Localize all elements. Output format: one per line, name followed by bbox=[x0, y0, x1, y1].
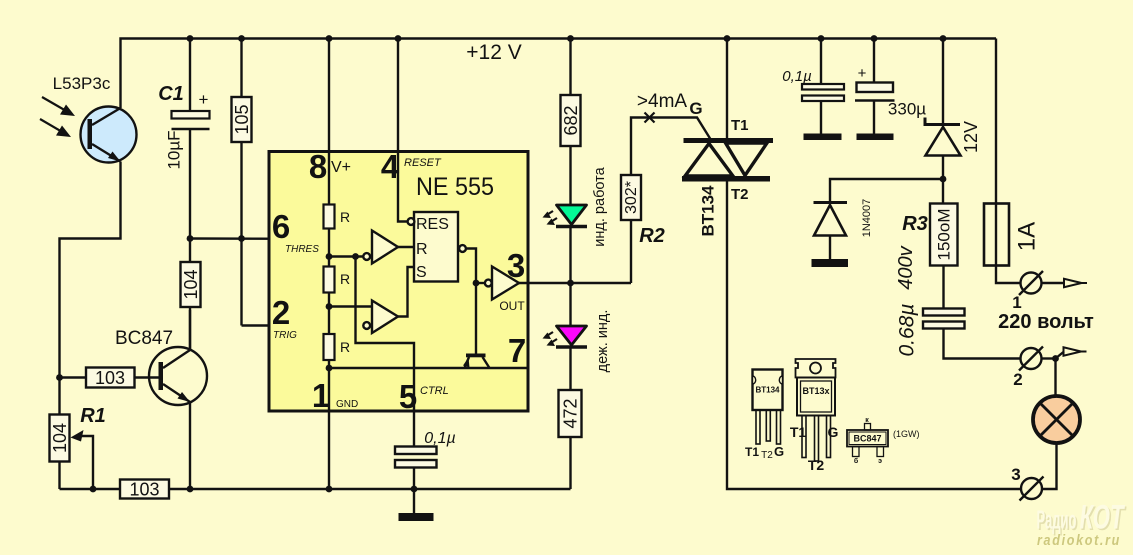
svg-text:+12 V: +12 V bbox=[466, 41, 521, 64]
ground (main) bbox=[399, 489, 434, 521]
wire cap to terminal 2 bbox=[944, 329, 1021, 359]
package BT134 bbox=[745, 370, 784, 462]
svg-text:OUT: OUT bbox=[499, 299, 525, 313]
wire divider seg1 bbox=[329, 229, 363, 267]
svg-text:472: 472 bbox=[561, 398, 581, 428]
wire comparator top out bbox=[396, 246, 414, 248]
svg-text:э: э bbox=[878, 458, 882, 465]
svg-text:T1: T1 bbox=[790, 424, 807, 440]
svg-text:radiokot.ru: radiokot.ru bbox=[1037, 532, 1121, 549]
svg-text:G: G bbox=[774, 444, 784, 459]
resistor R3 150oM bbox=[902, 204, 957, 266]
svg-text:0,1µ: 0,1µ bbox=[782, 68, 812, 85]
op-amp output buffer bbox=[485, 267, 519, 300]
wire TRIG (pin 2) bbox=[242, 324, 365, 326]
fuse 1A bbox=[984, 204, 1041, 266]
transistor discharge Q bbox=[463, 354, 490, 369]
pin 6 THRES bbox=[272, 208, 319, 255]
lamp bbox=[1033, 396, 1080, 443]
wire pin4 column to RES bubble bbox=[398, 39, 408, 222]
wire emitter of phototransistor to left rail bbox=[60, 162, 121, 490]
svg-text:T2: T2 bbox=[731, 186, 749, 203]
diode 1N4007 bbox=[814, 199, 874, 238]
svg-text:2: 2 bbox=[272, 294, 290, 331]
capacitor 0,1u filter bbox=[782, 68, 844, 101]
RS flip-flop U1 bbox=[408, 212, 466, 282]
resistor 103 (base) bbox=[86, 368, 135, 389]
svg-text:GND: GND bbox=[336, 399, 358, 410]
svg-text:682: 682 bbox=[561, 105, 581, 135]
svg-text:6: 6 bbox=[272, 208, 290, 245]
wire RS out to buffer and discharge base bbox=[466, 249, 484, 354]
pin 2 TRIG bbox=[272, 294, 297, 341]
diode zener 12V bbox=[925, 118, 981, 156]
wire 1N4007 to ground bbox=[829, 236, 831, 260]
wire bottom ground rail bbox=[60, 488, 571, 490]
svg-text:R2: R2 bbox=[639, 225, 665, 247]
capacitor C1 bbox=[158, 83, 209, 170]
wire lamp to terminal3 bbox=[1042, 443, 1057, 489]
svg-text:G: G bbox=[828, 424, 839, 440]
wire comparator bottom out to S bbox=[396, 267, 414, 317]
wire 105 column and THRES-TRIG tie bbox=[240, 39, 242, 326]
svg-text:Радио: Радио bbox=[1037, 505, 1077, 535]
svg-text:CTRL: CTRL bbox=[420, 385, 449, 397]
wire CTRL link (pin5 column) bbox=[356, 257, 415, 447]
IC NE555 body bbox=[269, 152, 528, 412]
op-amp comparator bottom bbox=[363, 301, 398, 334]
svg-text:0.68µ: 0.68µ bbox=[896, 304, 919, 357]
svg-text:+: + bbox=[199, 90, 209, 109]
terminal 3 bbox=[1011, 465, 1043, 501]
svg-text:2: 2 bbox=[1013, 370, 1022, 389]
svg-text:BT134: BT134 bbox=[755, 386, 780, 395]
pin 7 bbox=[508, 332, 526, 369]
wire 682 column bbox=[569, 39, 571, 490]
svg-text:105: 105 bbox=[232, 104, 252, 134]
wire divider bottom / pin1 GND column bbox=[328, 360, 330, 489]
resistor 105 bbox=[232, 97, 252, 142]
svg-text:BC847: BC847 bbox=[853, 434, 881, 444]
svg-text:T2: T2 bbox=[761, 450, 773, 461]
wire +12V top rail bbox=[121, 39, 997, 109]
svg-text:T2: T2 bbox=[808, 457, 825, 473]
svg-text:>4mA: >4mA bbox=[637, 91, 687, 112]
svg-text:V+: V+ bbox=[331, 159, 351, 176]
svg-text:BT134: BT134 bbox=[699, 185, 718, 237]
wire pin8 column bbox=[328, 39, 330, 205]
svg-text:деж. инд.: деж. инд. bbox=[595, 310, 611, 373]
svg-text:TRIG: TRIG bbox=[273, 330, 297, 341]
transistor BC847 bbox=[115, 328, 207, 405]
svg-text:+: + bbox=[858, 65, 867, 82]
wire R1 wiper bbox=[71, 430, 94, 489]
resistor R (divider mid) bbox=[324, 267, 351, 293]
svg-text:104: 104 bbox=[181, 269, 201, 299]
svg-text:8: 8 bbox=[309, 148, 327, 185]
capacitor 0,1u (CTRL pin5) bbox=[395, 430, 456, 468]
resistor 682 bbox=[561, 95, 582, 146]
svg-text:G: G bbox=[689, 99, 702, 118]
ground (0,1u) bbox=[804, 134, 842, 141]
svg-text:(1GW): (1GW) bbox=[893, 429, 920, 439]
pin 1 GND bbox=[312, 377, 358, 414]
resistor R (divider bottom) bbox=[324, 334, 351, 360]
svg-text:1: 1 bbox=[312, 377, 330, 414]
wire zener column bbox=[942, 39, 944, 204]
node label >4mA bbox=[637, 91, 687, 112]
svg-text:1N4007: 1N4007 bbox=[861, 199, 873, 238]
svg-text:10µF: 10µF bbox=[165, 130, 184, 169]
svg-text:400v: 400v bbox=[895, 245, 917, 289]
svg-text:3: 3 bbox=[1011, 465, 1020, 484]
wire fuse column bbox=[996, 39, 1020, 284]
triac BT134 bbox=[682, 117, 773, 237]
capacitor 0.68u 400v bbox=[895, 245, 965, 356]
wire terminal2 to lamp bbox=[1054, 359, 1056, 397]
svg-text:R: R bbox=[340, 271, 350, 287]
wire BC847 collector up / emitter down bbox=[189, 310, 191, 489]
resistor 104 (C1 column) bbox=[181, 262, 201, 307]
wire discharge row pin7 bbox=[329, 367, 527, 369]
svg-text:R1: R1 bbox=[80, 405, 106, 427]
wire C1 / 104 / collector column bbox=[189, 39, 191, 350]
pin 4 RESET bbox=[381, 148, 442, 185]
svg-text:1A: 1A bbox=[1014, 222, 1041, 251]
pin 5 CTRL bbox=[399, 378, 449, 415]
pin 3 OUT bbox=[499, 247, 525, 313]
svg-text:104: 104 bbox=[50, 423, 70, 453]
wire divider seg2 bbox=[329, 293, 372, 335]
wire THRES (pin 6) bbox=[190, 237, 372, 240]
svg-text:RES: RES bbox=[416, 216, 449, 233]
svg-text:L53P3c: L53P3c bbox=[53, 74, 111, 93]
ground (330u) bbox=[857, 134, 894, 141]
svg-text:220 вольт: 220 вольт bbox=[998, 311, 1094, 333]
svg-text:T1: T1 bbox=[731, 117, 749, 134]
phototransistor L53P3c bbox=[40, 74, 137, 163]
svg-text:330µ: 330µ bbox=[888, 100, 926, 119]
node label G bbox=[689, 99, 702, 118]
svg-text:КОТ: КОТ bbox=[1080, 499, 1126, 537]
package BC847 bbox=[847, 417, 920, 465]
svg-text:12V: 12V bbox=[961, 121, 981, 153]
svg-text:1: 1 bbox=[1012, 293, 1021, 312]
svg-text:R3: R3 bbox=[902, 213, 928, 235]
wire 0,1u column bbox=[820, 39, 822, 134]
wire gate drive bbox=[631, 118, 711, 176]
pin 8 V+ bbox=[309, 148, 351, 185]
node x mark bbox=[645, 113, 655, 123]
terminal 2 bbox=[1013, 347, 1086, 390]
node label деж. инд. bbox=[595, 310, 611, 373]
package BT13x bbox=[790, 359, 839, 473]
svg-text:BT13x: BT13x bbox=[802, 386, 829, 396]
wire OUT (pin3) line bbox=[519, 282, 631, 284]
svg-text:RESET: RESET bbox=[404, 157, 442, 169]
wire triac column top bbox=[726, 39, 728, 139]
potentiometer R1 104 bbox=[50, 405, 106, 462]
wire R3 to cap bbox=[942, 266, 944, 309]
svg-text:150oM: 150oM bbox=[935, 209, 954, 261]
svg-text:б: б bbox=[854, 457, 859, 465]
svg-text:0,1µ: 0,1µ bbox=[424, 430, 455, 447]
svg-text:T1: T1 bbox=[745, 445, 759, 459]
svg-text:NE 555: NE 555 bbox=[416, 173, 494, 201]
wire 1N4007 link bbox=[830, 179, 943, 202]
resistor R2 302* bbox=[621, 175, 665, 247]
watermark radiokot bbox=[1037, 499, 1128, 550]
ground (1N4007) bbox=[812, 259, 849, 267]
svg-text:R: R bbox=[416, 241, 428, 258]
wire 330u column bbox=[873, 39, 875, 134]
op-amp comparator top bbox=[363, 231, 398, 264]
svg-text:R: R bbox=[340, 339, 350, 355]
svg-text:THRES: THRES bbox=[285, 244, 319, 255]
svg-text:7: 7 bbox=[508, 332, 526, 369]
wire base resistor leads bbox=[60, 376, 159, 378]
wire triac column bottom to terminal 3 rail bbox=[727, 181, 1021, 489]
resistor 472 bbox=[559, 390, 582, 437]
svg-text:R: R bbox=[340, 209, 350, 225]
svg-text:BC847: BC847 bbox=[115, 328, 173, 349]
svg-text:S: S bbox=[416, 264, 427, 281]
terminal 1 bbox=[1012, 271, 1087, 312]
wire ctrl cap to rail bbox=[413, 468, 415, 490]
node +12V label bbox=[466, 41, 521, 64]
svg-text:103: 103 bbox=[95, 368, 125, 388]
LED magenta (standby indicator) bbox=[543, 326, 588, 347]
svg-text:инд. работа: инд. работа bbox=[592, 166, 608, 246]
svg-text:103: 103 bbox=[129, 480, 159, 500]
node label 220 вольт bbox=[998, 311, 1094, 333]
resistor R (divider top) bbox=[324, 205, 351, 229]
wire R2 to OUT bbox=[630, 220, 632, 283]
node label инд. работа bbox=[592, 166, 608, 246]
LED green (work indicator) bbox=[543, 205, 588, 227]
svg-text:C1: C1 bbox=[158, 83, 184, 105]
capacitor 330u bbox=[855, 65, 926, 119]
svg-text:302*: 302* bbox=[623, 181, 640, 214]
resistor 103 (bottom rail) bbox=[120, 480, 169, 500]
